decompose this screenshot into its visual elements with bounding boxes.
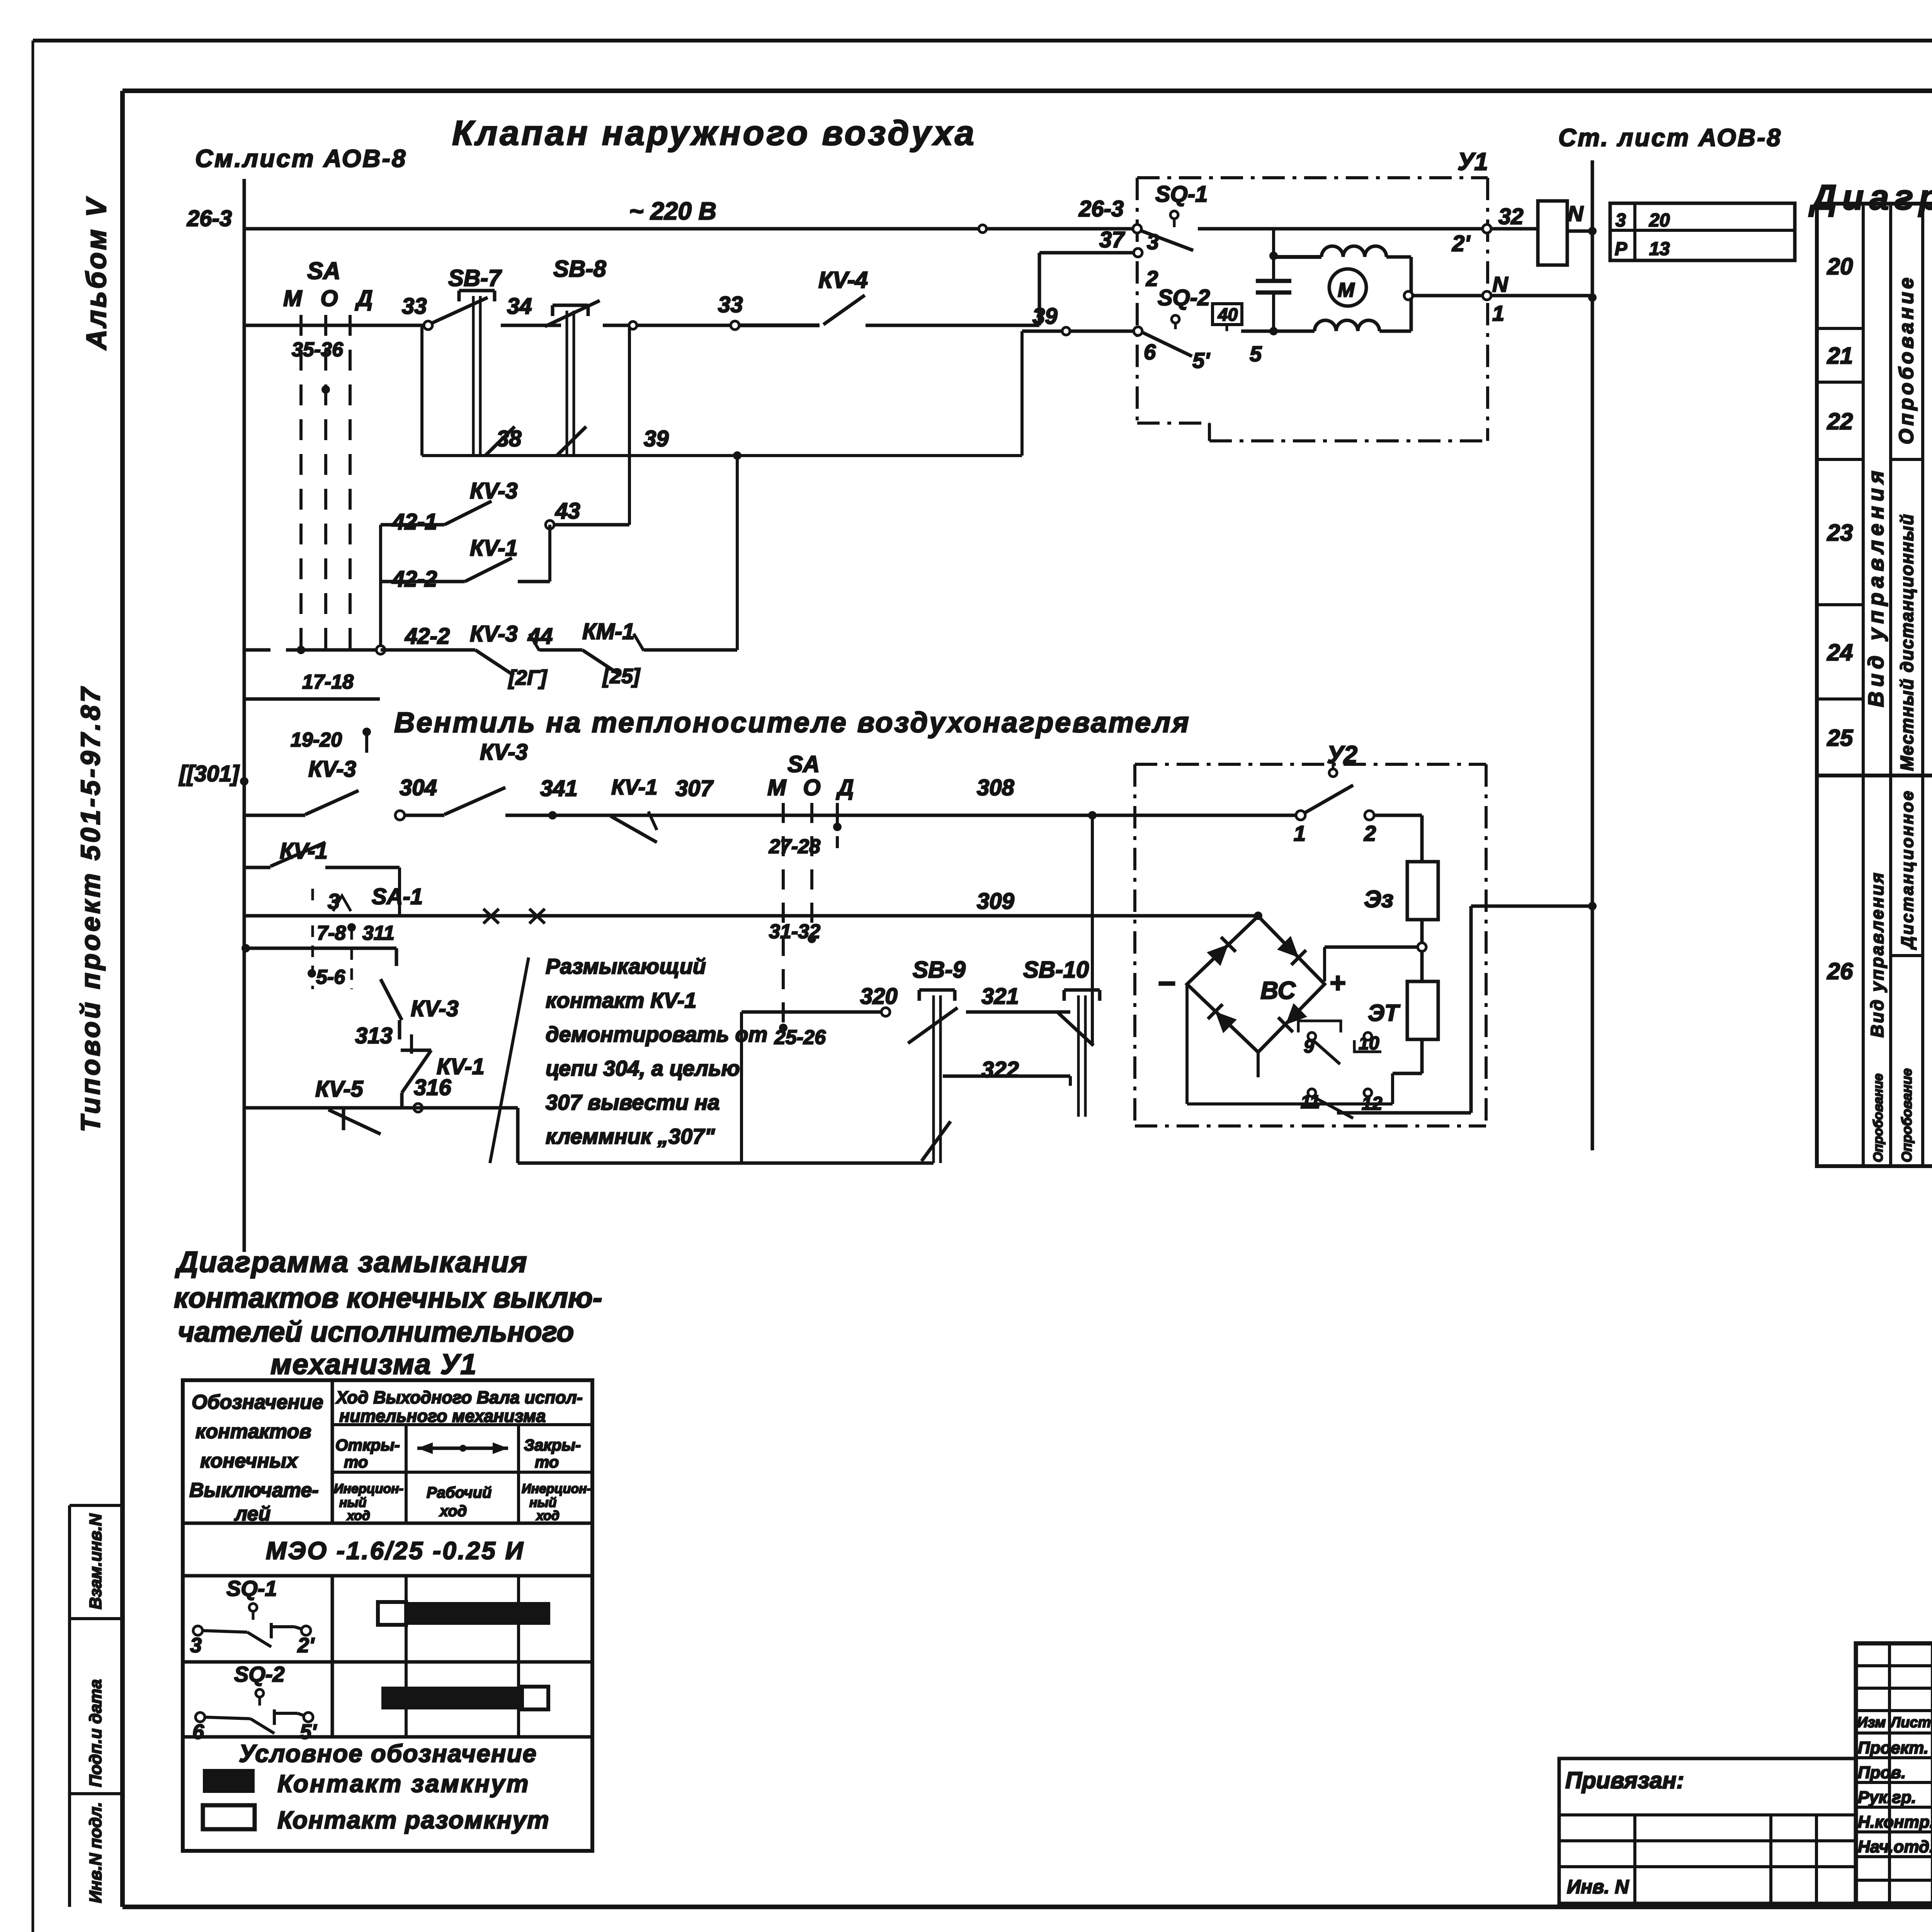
svg-text:нительного механизма: нительного механизма	[339, 1406, 546, 1426]
svg-text:309: 309	[977, 889, 1014, 914]
svg-text:См.лист АОВ-8: См.лист АОВ-8	[195, 145, 407, 172]
svg-text:КV-5: КV-5	[315, 1077, 364, 1102]
svg-text:конечных: конечных	[200, 1450, 298, 1472]
svg-text:SВ-10: SВ-10	[1023, 957, 1089, 983]
svg-text:Вентиль на теплоносителе возду: Вентиль на теплоносителе воздухонагреват…	[394, 706, 1190, 738]
svg-text:Диаграмма замыкания контактов: Диаграмма замыкания контактов	[1808, 178, 1932, 217]
svg-text:3: 3	[1147, 230, 1159, 254]
svg-text:~ 220 В: ~ 220 В	[629, 197, 716, 225]
svg-text:43: 43	[555, 498, 580, 524]
svg-text:ный: ный	[529, 1495, 557, 1510]
svg-text:2: 2	[1146, 266, 1158, 291]
svg-text:Н.контр.: Н.контр.	[1858, 1813, 1932, 1832]
svg-text:КV-4: КV-4	[818, 267, 868, 293]
svg-text:КV-1: КV-1	[611, 775, 658, 799]
svg-text:Инв.N подл.: Инв.N подл.	[86, 1802, 105, 1903]
svg-text:Привязан:: Привязан:	[1565, 1767, 1684, 1793]
svg-text:3: 3	[1616, 210, 1626, 231]
svg-text:N: N	[1492, 272, 1509, 296]
svg-text:[2Г]: [2Г]	[508, 666, 548, 689]
svg-text:5: 5	[1250, 342, 1262, 366]
svg-text:Вид управления: Вид управления	[1867, 871, 1887, 1037]
svg-text:М О Д: М О Д	[767, 775, 859, 800]
svg-text:38: 38	[497, 426, 522, 451]
svg-text:КV-3: КV-3	[308, 757, 356, 782]
svg-text:Обозначение: Обозначение	[192, 1391, 323, 1413]
svg-text:ход: ход	[346, 1509, 370, 1523]
svg-text:1: 1	[1492, 301, 1504, 325]
svg-text:25-26: 25-26	[774, 1026, 826, 1049]
svg-text:КV-3: КV-3	[470, 621, 518, 646]
svg-text:22: 22	[1827, 408, 1853, 434]
svg-text:Закры-: Закры-	[524, 1436, 581, 1454]
svg-text:ЭТ: ЭТ	[1368, 1000, 1400, 1026]
svg-text:17-18: 17-18	[302, 671, 354, 693]
svg-text:20: 20	[1649, 210, 1670, 231]
svg-text:Контакт замкнут: Контакт замкнут	[277, 1770, 530, 1798]
svg-text:М: М	[1338, 279, 1355, 301]
svg-text:35-36: 35-36	[292, 338, 344, 361]
svg-text:24: 24	[1827, 639, 1853, 665]
svg-text:1: 1	[1294, 821, 1306, 845]
svg-text:механизма У1: механизма У1	[270, 1348, 477, 1380]
svg-text:31-32: 31-32	[769, 920, 820, 943]
svg-text:27-28: 27-28	[769, 835, 820, 858]
svg-text:321: 321	[981, 984, 1019, 1009]
svg-text:то: то	[344, 1453, 368, 1471]
svg-text:Инерцион-: Инерцион-	[522, 1481, 591, 1496]
svg-text:SQ-1: SQ-1	[226, 1576, 277, 1600]
svg-text:У1: У1	[1458, 148, 1488, 175]
svg-text:SQ-2: SQ-2	[1158, 285, 1210, 310]
svg-text:Откры-: Откры-	[335, 1436, 400, 1454]
svg-text:Местный дистанционный: Местный дистанционный	[1897, 514, 1917, 771]
svg-text:40: 40	[1218, 304, 1238, 325]
svg-text:Дистанционное: Дистанционное	[1898, 789, 1917, 950]
svg-text:23: 23	[1827, 520, 1853, 546]
svg-text:SА: SА	[787, 751, 820, 777]
svg-text:Рабочий: Рабочий	[427, 1484, 492, 1501]
svg-text:Выключате-: Выключате-	[189, 1479, 319, 1502]
svg-text:307 вывести на: 307 вывести на	[546, 1090, 720, 1114]
svg-text:308: 308	[977, 775, 1015, 800]
svg-text:SА: SА	[307, 258, 340, 284]
svg-text:6: 6	[1144, 340, 1156, 364]
svg-text:2: 2	[1364, 821, 1376, 845]
svg-text:то: то	[535, 1453, 559, 1471]
svg-text:Ход Выходного Вала испол-: Ход Выходного Вала испол-	[335, 1388, 583, 1407]
svg-text:SВ-9: SВ-9	[913, 957, 966, 983]
svg-text:341: 341	[540, 776, 578, 801]
svg-text:26: 26	[1827, 958, 1853, 984]
svg-text:Лист: Лист	[1889, 1714, 1931, 1731]
svg-text:Взам.инв.N: Взам.инв.N	[86, 1513, 105, 1609]
svg-text:311: 311	[362, 922, 395, 944]
svg-text:7-8: 7-8	[317, 922, 346, 944]
svg-text:5': 5'	[1192, 348, 1210, 372]
svg-text:N: N	[1568, 201, 1584, 226]
svg-text:307: 307	[675, 776, 714, 801]
svg-text:Подп.и дата: Подп.и дата	[86, 1679, 105, 1787]
svg-text:SА-1: SА-1	[372, 884, 423, 909]
svg-text:Инв. N: Инв. N	[1567, 1876, 1629, 1898]
svg-text:лей: лей	[234, 1503, 270, 1525]
svg-text:19-20: 19-20	[291, 729, 342, 751]
svg-text:контактов: контактов	[196, 1420, 311, 1443]
svg-text:32: 32	[1498, 204, 1524, 229]
svg-text:[25]: [25]	[602, 665, 641, 688]
svg-text:Ст. лист АОВ-8: Ст. лист АОВ-8	[1558, 124, 1782, 151]
svg-text:ный: ный	[339, 1495, 367, 1510]
svg-text:+: +	[1329, 968, 1345, 998]
svg-text:Условное обозначение: Условное обозначение	[239, 1740, 537, 1767]
svg-text:М О Д: М О Д	[283, 286, 379, 311]
svg-text:42-2: 42-2	[405, 624, 450, 649]
svg-text:−: −	[1157, 966, 1175, 1000]
svg-text:SQ-1: SQ-1	[1155, 182, 1207, 207]
svg-text:Пров.: Пров.	[1858, 1763, 1906, 1782]
svg-text:Альбом V: Альбом V	[81, 196, 112, 350]
svg-text:У2: У2	[1327, 741, 1357, 769]
svg-text:Размыкающий: Размыкающий	[546, 954, 706, 978]
svg-text:2': 2'	[297, 1634, 315, 1657]
svg-text:Диаграмма замыкания: Диаграмма замыкания	[175, 1246, 528, 1279]
svg-text:26-3: 26-3	[187, 206, 232, 231]
svg-text:Р: Р	[1615, 239, 1628, 259]
svg-text:6: 6	[192, 1720, 204, 1743]
svg-text:37: 37	[1099, 227, 1125, 252]
svg-text:13: 13	[1649, 239, 1670, 259]
svg-text:Опробование: Опробование	[1899, 1068, 1915, 1162]
svg-text:33: 33	[718, 292, 743, 317]
svg-text:SВ-7: SВ-7	[448, 265, 502, 291]
svg-text:ВС: ВС	[1260, 976, 1296, 1004]
svg-text:КМ-1: КМ-1	[582, 619, 635, 644]
svg-text:КV-3: КV-3	[480, 740, 528, 765]
svg-text:3: 3	[190, 1634, 202, 1657]
svg-text:42-1: 42-1	[392, 509, 437, 534]
svg-text:контакт КV-1: контакт КV-1	[546, 988, 697, 1012]
svg-text:чателей исполнительного: чателей исполнительного	[178, 1316, 574, 1348]
svg-text:КV-1: КV-1	[280, 838, 328, 864]
svg-text:демонтировать от: демонтировать от	[546, 1022, 767, 1046]
svg-text:ход: ход	[439, 1503, 467, 1520]
svg-text:Инерцион-: Инерцион-	[334, 1481, 403, 1496]
svg-text:322: 322	[981, 1057, 1019, 1082]
svg-text:316: 316	[414, 1075, 452, 1100]
svg-text:Контакт разомкнут: Контакт разомкнут	[277, 1806, 550, 1834]
svg-text:[[301]: [[301]	[179, 761, 240, 786]
svg-text:20: 20	[1827, 253, 1853, 279]
svg-text:Типовой проект 501-5-97.87: Типовой проект 501-5-97.87	[75, 685, 105, 1132]
svg-text:320: 320	[860, 984, 898, 1009]
svg-text:КV-3: КV-3	[411, 996, 459, 1021]
svg-text:Проект.: Проект.	[1858, 1738, 1929, 1757]
svg-text:Клапан наружного воздуха: Клапан наружного воздуха	[452, 114, 976, 153]
svg-text:304: 304	[400, 775, 437, 800]
svg-text:КV-3: КV-3	[470, 478, 518, 503]
svg-text:33: 33	[402, 294, 427, 319]
svg-text:Опробование: Опробование	[1895, 275, 1918, 444]
svg-text:цепи 304, а целью: цепи 304, а целью	[546, 1056, 740, 1080]
svg-text:контактов конечных выклю-: контактов конечных выклю-	[174, 1282, 602, 1314]
svg-text:26-3: 26-3	[1078, 196, 1124, 221]
svg-text:SВ-8: SВ-8	[553, 256, 606, 282]
svg-text:Рук.гр.: Рук.гр.	[1858, 1788, 1916, 1807]
svg-text:ход: ход	[536, 1509, 560, 1523]
svg-text:2': 2'	[1452, 231, 1471, 256]
svg-text:313: 313	[355, 1023, 393, 1048]
svg-text:21: 21	[1827, 343, 1853, 369]
svg-text:SQ-2: SQ-2	[234, 1662, 285, 1686]
svg-text:Вид управления: Вид управления	[1864, 466, 1888, 707]
svg-text:Нач.отд.: Нач.отд.	[1858, 1837, 1932, 1856]
svg-text:34: 34	[507, 294, 532, 319]
svg-text:клеммник „307": клеммник „307"	[546, 1124, 715, 1148]
svg-text:39: 39	[1032, 304, 1058, 329]
svg-text:Изм: Изм	[1857, 1714, 1886, 1731]
svg-text:42-2: 42-2	[392, 566, 437, 592]
svg-text:КV-1: КV-1	[470, 536, 518, 561]
svg-text:Эз: Эз	[1364, 886, 1393, 913]
svg-text:25: 25	[1827, 725, 1854, 751]
svg-text:5-6: 5-6	[316, 966, 345, 988]
svg-text:МЭО -1.6/25 -0.25 И: МЭО -1.6/25 -0.25 И	[266, 1537, 525, 1565]
svg-text:Опробование: Опробование	[1871, 1073, 1886, 1162]
svg-text:39: 39	[644, 426, 669, 451]
